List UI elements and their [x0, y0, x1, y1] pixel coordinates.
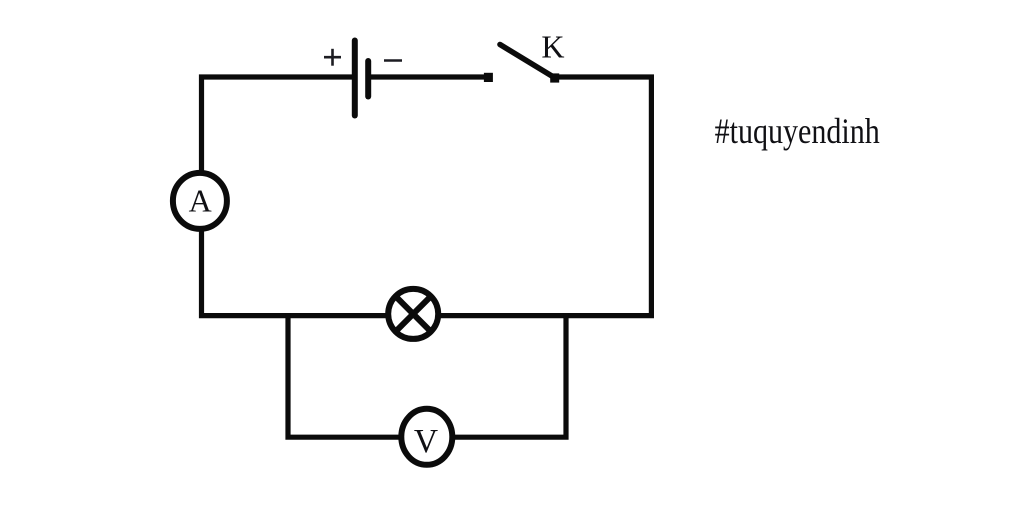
- svg-text:#tuquyendinh: #tuquyendinh: [715, 111, 880, 151]
- svg-text:A: A: [189, 183, 212, 219]
- svg-text:V: V: [414, 423, 438, 460]
- svg-text:K: K: [541, 29, 564, 65]
